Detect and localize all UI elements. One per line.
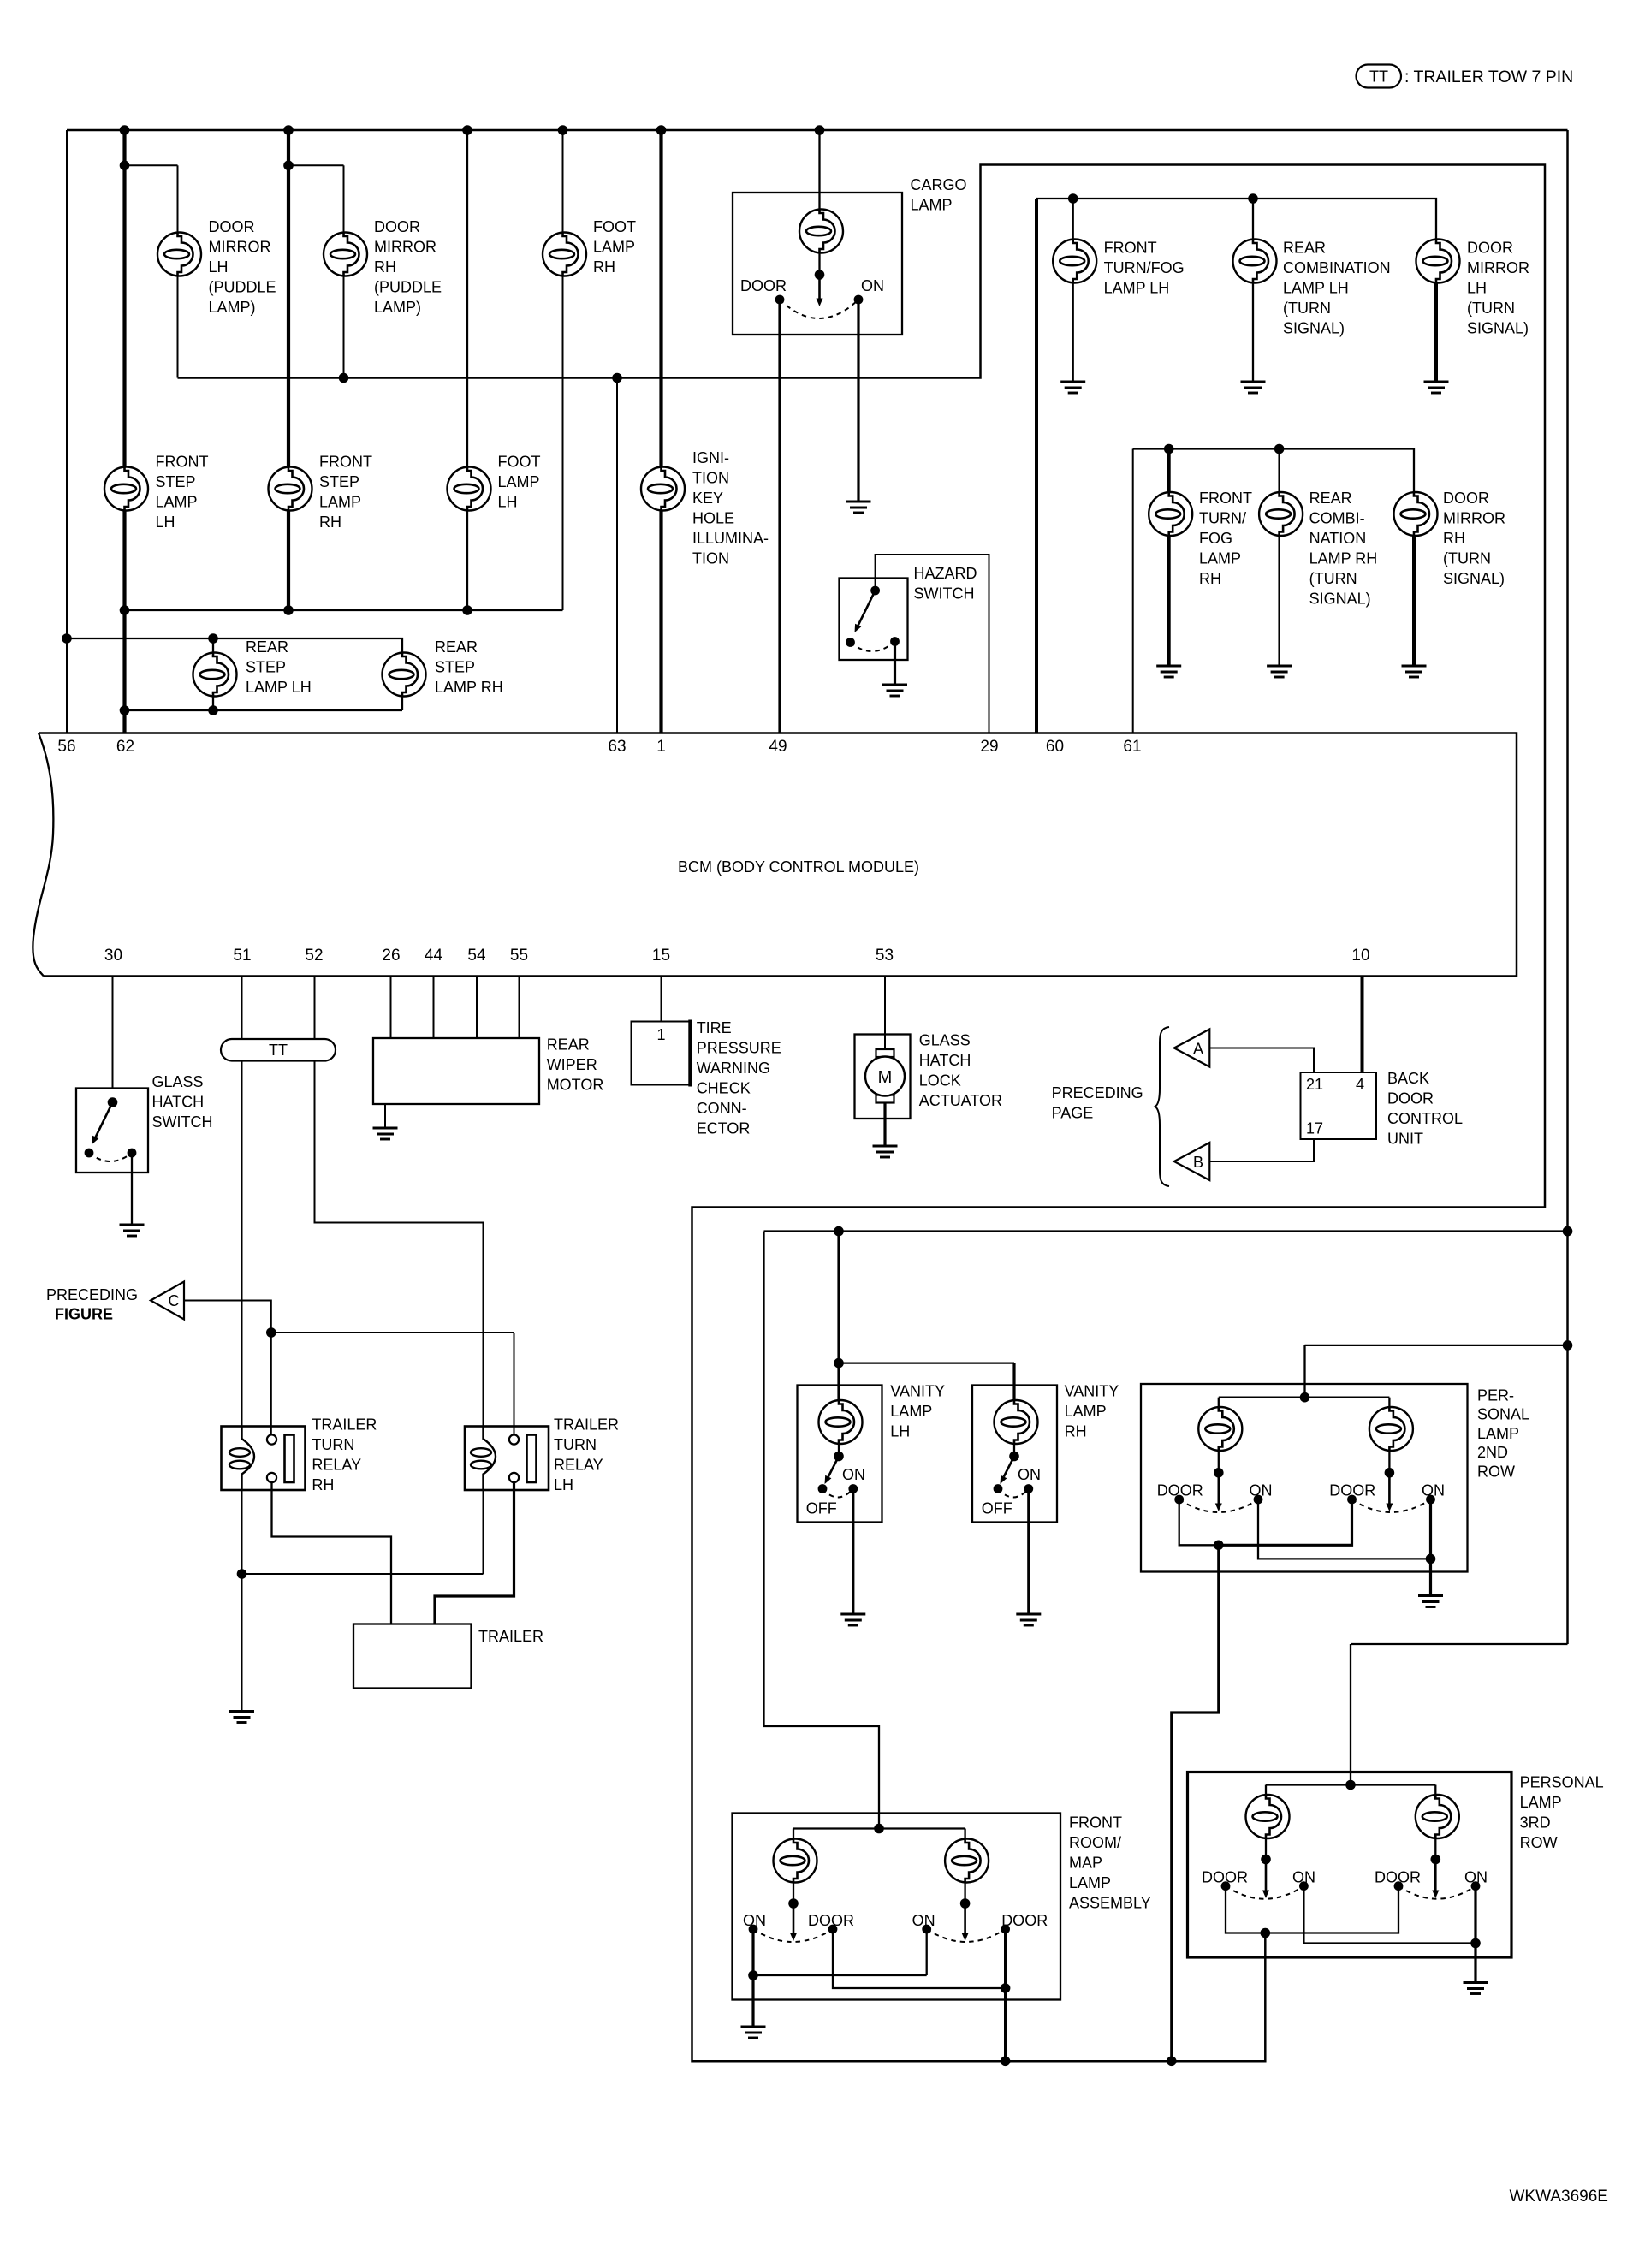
lamp IGNITION KEY HOLE ILLUMINATION — [641, 467, 685, 511]
svg-text:RH: RH — [1199, 570, 1221, 587]
wire pin62 string x=145.5 (bold) — [122, 130, 126, 733]
svg-text:DOOR: DOOR — [1467, 240, 1513, 257]
svg-text:ON: ON — [1018, 1466, 1041, 1483]
svg-text:SIGNAL): SIGNAL) — [1443, 570, 1505, 587]
svg-text:DOOR: DOOR — [1375, 1869, 1421, 1886]
svg-text:DOOR: DOOR — [1329, 1481, 1375, 1499]
lamp FRONT STEP LAMP LH — [104, 467, 148, 511]
lamp REAR STEP LAMP RH — [383, 653, 426, 697]
svg-text:TIRE: TIRE — [697, 1019, 732, 1036]
node coil return junction y=1839 — [237, 1569, 247, 1579]
svg-text:ON: ON — [1464, 1869, 1488, 1886]
wire pin30 to glass hatch switch — [112, 977, 114, 1089]
ground glass hatch switch — [120, 1225, 145, 1236]
wire pin to rear wiper motor x=606.5 — [519, 977, 520, 1039]
wire rear step top line — [67, 638, 402, 653]
wire right row1 bus y=232 — [1036, 199, 1436, 240]
svg-text:GLASS: GLASS — [152, 1073, 204, 1090]
wire personal 3rd feed rail y=1921 — [1351, 1643, 1568, 1645]
svg-text:(TURN: (TURN — [1309, 570, 1357, 587]
lamp FRONT TURN/FOG LAMP RH — [1149, 492, 1192, 536]
svg-text:LAMP: LAMP — [593, 239, 635, 256]
node personal 2nd pole B — [1385, 1468, 1395, 1478]
box CARGO LAMP — [733, 193, 902, 335]
svg-text:CARGO: CARGO — [911, 176, 967, 193]
dashed arc glass hatch switch — [89, 1153, 132, 1161]
lamp DOOR MIRROR LH (PUDDLE LAMP) — [157, 233, 201, 276]
ground hazard switch — [882, 685, 907, 696]
svg-text:54: 54 — [467, 947, 486, 965]
wire junction to relay LH contact — [271, 1332, 514, 1333]
svg-text:SWITCH: SWITCH — [914, 585, 975, 603]
wire rear combination RH drop — [1278, 449, 1280, 493]
node x145.5 / door-mirror-LH tap — [120, 161, 130, 171]
svg-text:SIGNAL): SIGNAL) — [1467, 320, 1529, 337]
svg-text:61: 61 — [1123, 738, 1141, 756]
node personal 2nd feed — [1300, 1392, 1310, 1403]
wire personal 3rd lamp B stub — [1434, 1785, 1436, 1796]
dashed arc personal 3rd A — [1226, 1886, 1303, 1899]
node top bus / x657.5 — [558, 125, 568, 135]
connector triangle B — [1174, 1143, 1210, 1180]
wire front room ON B down — [926, 1929, 928, 1975]
wire rear step LH lamp upper stub — [212, 638, 214, 653]
box FRONT ROOM/MAP LAMP ASSEMBLY — [733, 1814, 1061, 2000]
svg-text:C: C — [169, 1292, 180, 1309]
wire vanity RH feed horizontal — [839, 1362, 1014, 1363]
wire front turn/fog LH to ground — [1072, 283, 1074, 383]
contact personal 3rd ON A — [1299, 1881, 1309, 1891]
svg-text:2ND: 2ND — [1477, 1444, 1508, 1461]
wire top power bus — [67, 129, 1568, 132]
svg-text:DOOR: DOOR — [1157, 1481, 1203, 1499]
svg-text:(PUDDLE: (PUDDLE — [209, 279, 276, 296]
ground front room/map lamp — [741, 2027, 766, 2038]
svg-text:VANITY: VANITY — [890, 1383, 945, 1400]
node rear step LH bottom — [208, 705, 218, 715]
svg-text:CHECK: CHECK — [697, 1080, 751, 1097]
legend TT trailer tow 7 pin symbol — [1357, 65, 1402, 88]
node front room pole A — [788, 1898, 799, 1909]
node x337 / door-mirror-RH tap — [283, 161, 294, 171]
wire personal 2nd ON A down — [1258, 1499, 1431, 1559]
wire pin52 jog to relay LH coil — [315, 977, 484, 1427]
svg-text:FOG: FOG — [1199, 530, 1232, 547]
svg-text:26: 26 — [382, 947, 400, 965]
wire junction down to relay RH contact — [270, 1333, 272, 1435]
contact front room DOOR A — [828, 1925, 838, 1934]
node personal 3rd ON junction — [1470, 1938, 1481, 1949]
node front room DOOR junction — [1001, 1983, 1011, 1993]
lamp PERSONAL 3RD ROW A — [1246, 1795, 1290, 1838]
wire lamp-return bus y=713 — [125, 609, 563, 611]
svg-text:ON: ON — [861, 277, 884, 294]
svg-text:LAMP: LAMP — [1065, 1403, 1107, 1420]
wire personal 3rd DOOR B down — [1265, 1886, 1398, 1933]
box TIRE PRESSURE WARNING CHECK CONNECTOR — [632, 1022, 691, 1085]
svg-text:B: B — [1193, 1154, 1203, 1171]
wire personal 2nd pole A — [1218, 1451, 1220, 1473]
symbol TT oval on pins 51/52 — [221, 1039, 336, 1061]
svg-text:PRECEDING: PRECEDING — [1052, 1084, 1143, 1101]
lamp DOOR MIRROR RH (TURN SIGNAL) — [1394, 492, 1438, 536]
lamp FOOT LAMP RH — [543, 233, 586, 276]
box BCM (BODY CONTROL MODULE) — [39, 733, 1517, 977]
lamp PERSONAL 2ND ROW A — [1198, 1407, 1242, 1451]
wire pin61 riser x=1323.7 — [1132, 449, 1134, 733]
ground rear combination LH — [1241, 382, 1266, 393]
contact personal 3rd ON B — [1471, 1881, 1481, 1891]
wire vanity LH feed x=980 (bold) — [837, 1232, 840, 1400]
ground door mirror RH turn — [1402, 666, 1427, 677]
node x546 / bus713 — [462, 605, 472, 615]
box PERSONAL LAMP 3RD ROW — [1188, 1772, 1512, 1958]
wire personal 3rd DOOR A down — [1226, 1886, 1265, 1933]
node front room ON junction — [748, 1970, 758, 1980]
contact front room ON B — [922, 1925, 931, 1934]
svg-text:1: 1 — [656, 738, 666, 756]
svg-text:DOOR: DOOR — [1202, 1869, 1248, 1886]
wire personal 3rd lamp A stub — [1265, 1785, 1267, 1796]
wire relay LH coil to tie — [483, 1490, 484, 1574]
svg-text:HATCH: HATCH — [919, 1052, 971, 1069]
wire front turn/fog RH drop (bold) — [1167, 449, 1171, 493]
wire personal 2nd ON B to ground — [1429, 1499, 1432, 1596]
svg-text:TURN: TURN — [554, 1436, 597, 1453]
node personal 2nd ON junction — [1426, 1554, 1436, 1564]
svg-text:RH: RH — [319, 514, 341, 531]
svg-text:(TURN: (TURN — [1443, 550, 1491, 567]
svg-text:KEY: KEY — [692, 490, 723, 507]
svg-text:PRECEDING: PRECEDING — [46, 1286, 138, 1303]
wire front room ON tie — [753, 1974, 927, 1976]
box TRAILER — [353, 1624, 472, 1689]
dashed arc cargo switch — [780, 300, 858, 318]
wire personal 2nd lamp A stub — [1218, 1398, 1220, 1407]
wire door mirror LH turn to ground (bold) — [1434, 283, 1438, 383]
box PERSONAL LAMP 2ND ROW — [1141, 1384, 1468, 1572]
switch+lamp VANITY LAMP RH — [972, 1386, 1057, 1523]
ground rear wiper motor — [373, 1128, 398, 1139]
switch arm hazard — [855, 591, 876, 632]
wire front room lamp B stub — [964, 1829, 965, 1839]
switch arm front room A — [790, 1903, 797, 1941]
svg-text:RELAY: RELAY — [312, 1457, 361, 1474]
svg-text:TURN/: TURN/ — [1199, 510, 1246, 527]
node personal 2nd pole A — [1214, 1468, 1224, 1478]
svg-text:3RD: 3RD — [1520, 1814, 1551, 1832]
contact hazard pole — [870, 586, 880, 596]
wire rear combination RH to ground — [1278, 536, 1280, 666]
node door mirror RH / mid bus — [339, 373, 349, 383]
svg-text:LAMP LH: LAMP LH — [1283, 280, 1349, 297]
svg-text:ROW: ROW — [1520, 1834, 1558, 1851]
wire front room DOOR B to bottom bus — [1004, 1929, 1007, 2061]
svg-text:RH: RH — [1443, 530, 1465, 547]
box REAR WIPER MOTOR — [373, 1038, 539, 1104]
box GLASS HATCH LOCK ACTUATOR — [855, 1035, 911, 1119]
wire relay LH contact to trailer box — [435, 1483, 514, 1624]
svg-text:10: 10 — [1351, 947, 1369, 965]
svg-text:NATION: NATION — [1309, 530, 1367, 547]
svg-text:MIRROR: MIRROR — [1443, 510, 1505, 527]
switch arm personal 2nd B — [1386, 1473, 1393, 1511]
svg-text:TT: TT — [269, 1042, 288, 1059]
node x145.5 / bus713 — [120, 605, 130, 615]
svg-text:ROOM/: ROOM/ — [1069, 1834, 1121, 1851]
wire door mirror RH tap horizontal — [288, 164, 344, 166]
wire personal 2nd pole B — [1388, 1451, 1390, 1473]
dashed arc front room B — [927, 1929, 1006, 1942]
wire personal 2nd DOOR A down — [1179, 1499, 1219, 1545]
svg-text:HATCH: HATCH — [152, 1094, 205, 1111]
node bottom bus / personal 2nd DOOR — [1167, 2057, 1177, 2067]
svg-text:SONAL: SONAL — [1477, 1406, 1529, 1423]
svg-text:FOOT: FOOT — [593, 218, 636, 235]
wire pin10 to back door control unit (bold) — [1361, 977, 1364, 1073]
node personal 2nd DOOR junction — [1214, 1541, 1224, 1551]
node pin63 / mid bus — [612, 373, 622, 383]
node personal 3rd DOOR junction — [1261, 1928, 1271, 1938]
svg-text:LH: LH — [554, 1476, 573, 1493]
svg-text:56: 56 — [57, 738, 75, 756]
svg-text:MIRROR: MIRROR — [209, 239, 271, 256]
box GLASS HATCH SWITCH — [76, 1089, 148, 1173]
node x145.5 / rear-step bottom — [120, 705, 130, 715]
svg-text:DOOR: DOOR — [209, 218, 255, 235]
wire foot lamp LH string x=546 — [466, 130, 468, 610]
svg-text:MIRROR: MIRROR — [374, 239, 436, 256]
lamp PERSONAL 3RD ROW B — [1416, 1795, 1459, 1838]
switch arm front room B — [962, 1903, 969, 1941]
svg-text:RELAY: RELAY — [554, 1457, 603, 1474]
svg-text:COMBI-: COMBI- — [1309, 510, 1365, 527]
node front room pole B — [960, 1898, 971, 1909]
svg-text:ON: ON — [912, 1912, 935, 1929]
svg-text:OFF: OFF — [982, 1500, 1012, 1517]
svg-text:FOOT: FOOT — [498, 454, 541, 471]
node personal 3rd pole B — [1431, 1855, 1441, 1865]
svg-text:LAMP): LAMP) — [209, 299, 256, 316]
wire door signal rail (mid bus y441.5 around page) — [178, 165, 1546, 2062]
wire rear step LH lamp lower stub — [212, 697, 214, 711]
svg-text:LAMP: LAMP — [890, 1403, 932, 1420]
dashed arc personal 2nd A — [1179, 1499, 1258, 1512]
node top bus / x145.5 — [120, 125, 130, 135]
svg-text:LAMP: LAMP — [156, 494, 198, 511]
wire pin to rear wiper motor x=456.5 — [390, 977, 392, 1039]
contact cargo DOOR — [775, 295, 785, 305]
wire personal 2nd lamp B stub — [1388, 1398, 1390, 1407]
wire hazard switch to pin29 — [876, 555, 989, 733]
wire cargo DOOR to pin49 — [778, 300, 781, 733]
svg-text:M: M — [878, 1068, 893, 1087]
dashed arc front room A — [753, 1929, 833, 1942]
switch arm personal 2nd A — [1215, 1473, 1222, 1511]
wire cargo lamp to switch pole — [818, 253, 820, 276]
box HAZARD SWITCH — [840, 579, 908, 661]
ground personal 3rd row — [1464, 1983, 1488, 1994]
switch+lamp VANITY LAMP LH — [798, 1386, 882, 1523]
svg-text:MIRROR: MIRROR — [1467, 259, 1529, 276]
box BACK DOOR CONTROL UNIT connector — [1301, 1072, 1377, 1139]
svg-text:SIGNAL): SIGNAL) — [1283, 320, 1345, 337]
wire pin1 string x=772.5 (bold) — [659, 130, 662, 733]
node top bus / x546 — [462, 125, 472, 135]
wire right row2 bus y=524.5 — [1133, 449, 1414, 493]
node vanity feed split — [834, 1358, 844, 1369]
svg-text:REAR: REAR — [246, 638, 288, 656]
wire front room pole B — [964, 1883, 965, 1904]
svg-text:RH: RH — [312, 1476, 334, 1493]
svg-text:DOOR: DOOR — [1387, 1090, 1434, 1107]
svg-text:SIGNAL): SIGNAL) — [1309, 591, 1371, 608]
wire front step RH string x=337 (bold) — [287, 130, 290, 610]
svg-text:44: 44 — [425, 947, 443, 965]
lamp REAR STEP LAMP LH — [193, 653, 237, 697]
svg-text:ON: ON — [1422, 1481, 1445, 1499]
svg-text:WIPER: WIPER — [547, 1056, 597, 1073]
svg-text:REAR: REAR — [1283, 240, 1326, 257]
node y1438.6 / vanity feed — [834, 1226, 844, 1237]
svg-text:CONN-: CONN- — [697, 1100, 747, 1117]
contact hazard right — [890, 637, 900, 646]
svg-text:4: 4 — [1356, 1076, 1364, 1093]
wire door mirror LH to mid bus — [177, 276, 179, 378]
svg-text:BCM (BODY CONTROL MODULE): BCM (BODY CONTROL MODULE) — [678, 858, 919, 876]
wire front room feed via x=892.5 — [764, 1232, 880, 1829]
svg-text:LOCK: LOCK — [919, 1072, 961, 1089]
BCM torn left edge — [33, 733, 53, 977]
switch arm personal 3rd B — [1432, 1860, 1439, 1899]
svg-text:LAMP: LAMP — [1199, 550, 1241, 567]
svg-text:STEP: STEP — [319, 473, 359, 490]
connector triangle A — [1174, 1030, 1210, 1067]
ground personal 2nd row — [1418, 1596, 1443, 1607]
wire pin15 to tire pressure connector — [661, 977, 662, 1022]
svg-text:REAR: REAR — [435, 638, 478, 656]
svg-text:OFF: OFF — [806, 1500, 837, 1517]
relay TRAILER TURN RELAY RH — [222, 1427, 306, 1491]
node front room feed — [874, 1824, 884, 1834]
wire personal 3rd ON B to ground — [1474, 1886, 1476, 1983]
wire front room DOOR A down — [833, 1929, 1006, 1988]
svg-text:FIGURE: FIGURE — [55, 1306, 113, 1323]
svg-text:TRAILER: TRAILER — [554, 1416, 619, 1434]
svg-text:RH: RH — [593, 258, 615, 276]
svg-text:ON: ON — [1250, 1481, 1273, 1499]
wire relay RH contact to trailer box — [272, 1483, 392, 1624]
wire pin to rear wiper motor x=557 — [476, 977, 478, 1039]
svg-text:ACTUATOR: ACTUATOR — [919, 1092, 1002, 1109]
wire front room ON A to ground — [751, 1929, 754, 2027]
node top bus / x772.5 — [656, 125, 667, 135]
svg-text:COMBINATION: COMBINATION — [1283, 259, 1391, 276]
wire hazard right contact to ground — [894, 642, 896, 686]
svg-text:RH: RH — [374, 258, 396, 276]
lamp FOOT LAMP LH — [448, 467, 491, 511]
wire rear wiper motor to ground — [384, 1104, 386, 1128]
lamp REAR COMBINATION LAMP RH (TURN SIGNAL) — [1259, 492, 1303, 536]
node personal 3rd pole A — [1261, 1855, 1271, 1865]
wire pin53 to actuator — [884, 977, 886, 1050]
svg-text:TRAILER: TRAILER — [312, 1416, 377, 1434]
wire pin63 drop x=721 — [616, 378, 618, 733]
svg-text:53: 53 — [876, 947, 894, 965]
svg-text:LAMP LH: LAMP LH — [246, 679, 312, 696]
wire door mirror RH to mid bus — [343, 276, 345, 378]
relay TRAILER TURN RELAY LH — [465, 1427, 549, 1491]
svg-text:21: 21 — [1306, 1076, 1323, 1093]
svg-text:LAMP: LAMP — [911, 197, 953, 214]
svg-text:1: 1 — [656, 1026, 665, 1043]
wire rear step RH lamp lower stub — [401, 697, 403, 711]
svg-text:TURN/FOG: TURN/FOG — [1104, 259, 1185, 276]
wire coil return tie y=1839 — [242, 1573, 484, 1575]
node x337 / bus713 — [283, 605, 294, 615]
svg-text:LAMP: LAMP — [1520, 1794, 1562, 1811]
node rear step LH top — [208, 633, 218, 644]
brace preceding page — [1155, 1027, 1169, 1186]
wire door mirror LH tap horizontal — [125, 164, 178, 166]
contact personal 3rd DOOR B — [1394, 1881, 1404, 1891]
svg-text:CONTROL: CONTROL — [1387, 1110, 1463, 1127]
dashed arc personal 2nd B — [1352, 1499, 1431, 1512]
svg-text:RH: RH — [1065, 1423, 1087, 1440]
wire down to relay LH contact — [514, 1333, 515, 1435]
switch arm glass hatch — [92, 1102, 113, 1144]
contact personal 2nd DOOR B — [1347, 1495, 1357, 1505]
lamp CARGO LAMP bulb — [799, 210, 843, 253]
contact glass hatch left — [85, 1149, 94, 1158]
node cargo switch pole — [815, 270, 825, 280]
svg-text:HAZARD: HAZARD — [914, 565, 977, 582]
wire vanity RH feed drop — [1012, 1363, 1015, 1400]
svg-text:IGNI-: IGNI- — [692, 449, 729, 466]
svg-text:A: A — [1193, 1041, 1203, 1058]
wire right power rail x=1831.5 — [1566, 130, 1569, 1644]
node right rail / y1438.6 — [1563, 1226, 1573, 1237]
wire glass hatch right contact to ground — [131, 1153, 133, 1225]
svg-text:LH: LH — [1467, 280, 1487, 297]
svg-text:MAP: MAP — [1069, 1855, 1102, 1872]
node C wire / relay contacts — [266, 1327, 276, 1338]
wire personal 2nd feed drop — [1303, 1345, 1305, 1398]
svg-text:: TRAILER TOW 7 PIN: : TRAILER TOW 7 PIN — [1404, 68, 1573, 86]
svg-text:REAR: REAR — [1309, 490, 1352, 507]
switch arm personal 3rd A — [1262, 1860, 1269, 1899]
svg-text:MOTOR: MOTOR — [547, 1077, 604, 1094]
svg-text:PERSONAL: PERSONAL — [1520, 1774, 1604, 1791]
svg-text:(TURN: (TURN — [1283, 300, 1331, 317]
wire battery rail y=1438.6 — [764, 1230, 1568, 1232]
contact hazard left — [846, 638, 855, 647]
ground front turn/fog LH — [1060, 382, 1085, 393]
lamp FRONT ROOM/MAP A — [774, 1839, 817, 1883]
contact glass hatch pole — [108, 1097, 118, 1107]
svg-text:LH: LH — [156, 514, 175, 531]
wire rear combination LH drop — [1252, 199, 1254, 240]
wire personal 3rd pole A — [1265, 1838, 1267, 1860]
wire personal 2nd feed rail y=1571.9 — [1305, 1345, 1568, 1346]
wire foot lamp RH string x=657.5 — [562, 130, 564, 610]
lamp FRONT ROOM/MAP B — [945, 1839, 989, 1883]
svg-text:TRAILER: TRAILER — [478, 1628, 543, 1645]
wire front room pole A — [793, 1883, 794, 1904]
svg-text:(TURN: (TURN — [1467, 300, 1515, 317]
ground cargo ON — [846, 502, 871, 513]
contact front room ON A — [749, 1925, 758, 1934]
